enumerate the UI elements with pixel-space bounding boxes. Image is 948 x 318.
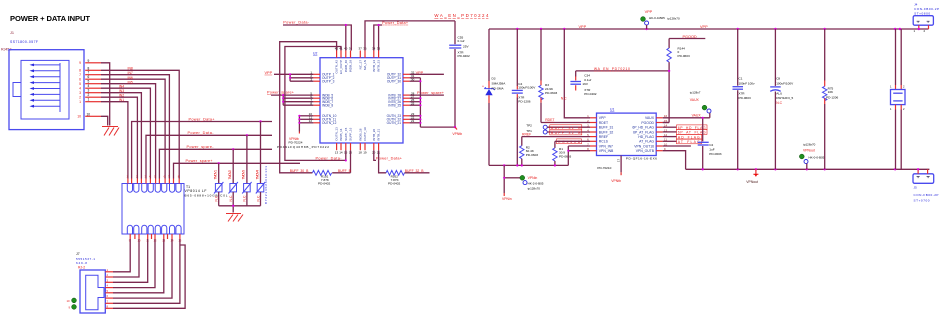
svg-text:CON-FB00-2P: CON-FB00-2P (914, 7, 939, 11)
wire J1 pin9 to ground (101, 63, 110, 126)
wire J7 pin3 to T1 (113, 239, 148, 282)
svg-text:U2: U2 (313, 52, 317, 56)
wire TMOV1 top (218, 163, 220, 183)
svg-text:1uF: 1uF (709, 147, 714, 151)
svg-text:13: 13 (335, 151, 339, 155)
transformer T1 bottom pin numbers (129, 239, 182, 243)
wire net Power_Data+ (line y121.5) (132, 122, 272, 179)
resistor R75 labels (826, 86, 838, 99)
diode D3 labels (492, 76, 507, 90)
junction C2 top (702, 117, 704, 119)
svg-text:PD-0402: PD-0402 (584, 92, 596, 96)
IC U2 bottom pin names (rotated) (335, 127, 381, 141)
wire TMOV3 top (246, 135, 248, 183)
svg-text:INTB_33: INTB_33 (377, 60, 381, 72)
wire RCLS to U1 pin6 (555, 141, 590, 148)
wire TMOV bottoms to rail (219, 192, 261, 213)
svg-text:10: 10 (77, 115, 81, 119)
svg-text:IN4: IN4 (119, 85, 124, 89)
svg-text:VAUX: VAUX (645, 116, 655, 120)
svg-text:PD-SMA: PD-SMA (492, 87, 505, 91)
test point TP2 (526, 124, 590, 130)
wire U2 pins 10-12 to VPNtb (299, 116, 313, 132)
junction J5 pin1 (917, 168, 919, 170)
svg-text:VPP: VPP (645, 10, 653, 14)
svg-text:INTB_21: INTB_21 (377, 129, 381, 141)
svg-text:2: 2 (79, 96, 81, 100)
svg-text:tp128x7: tp128x7 (690, 90, 701, 94)
svg-text:Power_spare-: Power_spare- (187, 145, 215, 149)
svg-text:649-8: 649-8 (76, 261, 87, 265)
resistor R3 labels (545, 83, 557, 95)
junction bottom data- (345, 159, 347, 161)
capacitor C1 labels (739, 77, 755, 100)
wire net IN5 (J1 pin5 to T1) (101, 84, 156, 179)
svg-text:AT_FLAG: AT_FLAG (678, 140, 700, 144)
IC U1 right pin stubs (656, 118, 663, 151)
wire J7 pin1 to T1 (113, 239, 130, 272)
IC U1 pin numbers left (587, 114, 589, 151)
svg-text:6: 6 (79, 78, 81, 82)
svg-text:Power_Data-: Power_Data- (283, 21, 310, 25)
svg-text:VPNtb: VPNtb (611, 179, 621, 183)
resistor R1 (30.9) (553, 148, 557, 161)
junction spare pins (282, 94, 284, 96)
capacitor C55 labels (458, 35, 470, 58)
test point VPNin (504, 165, 544, 196)
wire net IN6 (J1 pin6 to T1) (101, 79, 165, 178)
svg-text:PD-1206: PD-1206 (518, 99, 530, 103)
svg-text:N.C: N.C (561, 96, 567, 100)
svg-text:OUTP_19: OUTP_19 (363, 127, 367, 141)
svg-text:J1: J1 (10, 31, 14, 35)
svg-text:VPN_OUTB: VPN_OUTB (636, 149, 655, 153)
svg-text:OUTN_42: OUTN_42 (335, 60, 339, 74)
connector J7 body (80, 270, 105, 313)
svg-text:PD-0603: PD-0603 (526, 153, 538, 157)
resistor R3 (RDET 24.9K) (539, 29, 590, 123)
svg-text:OUTP_3: OUTP_3 (322, 79, 335, 83)
junction pin8 (567, 150, 569, 152)
varistor TMOV1 (214, 170, 224, 202)
junction J4 pin1 (918, 28, 920, 30)
svg-text:EX_OUTP: EX_OUTP (339, 60, 343, 74)
net label 4P_AT_FLAG (boxed) (663, 130, 707, 135)
test point TP VAUX (690, 90, 711, 117)
wire R2 bottom (521, 159, 523, 166)
wire VAUX (U1 pin16) (663, 117, 710, 119)
svg-text:37: 37 (359, 47, 363, 51)
varistor TMOV2 (228, 170, 238, 202)
svg-text:CON-FB00-2P: CON-FB00-2P (914, 193, 939, 197)
junction Power_spare+ / TMOV1 (218, 162, 220, 164)
wire U2 pin42 wraparound to BUFF resistor (280, 42, 337, 173)
svg-text:OUTN_12: OUTN_12 (322, 121, 337, 125)
svg-text:OUTN_13: OUTN_13 (335, 127, 339, 141)
svg-text:INDB_14: INDB_14 (339, 128, 343, 141)
wire R144 to U1 pin15 (663, 62, 669, 122)
svg-text:4: 4 (79, 87, 81, 91)
svg-text:VPNout: VPNout (746, 180, 758, 184)
wire net IN3 (J1 pin3 to T1) (101, 93, 141, 179)
svg-text:BUFF_31: BUFF_31 (599, 126, 614, 130)
wire net IN2 (J1 pin2 to T1) (101, 97, 137, 178)
svg-text:BUFF_32_B: BUFF_32_B (551, 131, 581, 135)
IC U1 left pin stubs (590, 118, 597, 151)
svg-text:INDB_40: INDB_40 (344, 60, 348, 73)
wire U2 pin41 wraparound to Power_Data- bottom (285, 47, 346, 161)
svg-text:VPNin: VPNin (528, 176, 538, 180)
wire WA_EN_PD70224 (U2 pin36 to C55) (365, 21, 455, 51)
svg-text:25V: 25V (463, 44, 469, 48)
wire Power_Data+ to U2 top pins (374, 25, 382, 51)
test point VPNout (on rail) (799, 143, 824, 170)
connector J7 pin stubs (105, 272, 113, 309)
svg-text:SS71800-057F: SS71800-057F (10, 40, 38, 44)
svg-text:C2: C2 (709, 143, 713, 147)
svg-text:VPN_INB: VPN_INB (599, 149, 614, 153)
svg-text:3: 3 (79, 91, 81, 95)
IC U1 left pin names (599, 116, 614, 153)
varistor TMOV4 (255, 170, 265, 202)
resistor R144 labels (678, 46, 690, 58)
svg-text:X7R: X7R (739, 92, 746, 96)
svg-text:MA_LN: MA_LN (363, 60, 367, 70)
svg-text:Power_spare+: Power_spare+ (267, 91, 295, 95)
svg-text:tp128x70: tp128x70 (803, 143, 816, 147)
svg-text:Power_Data-: Power_Data- (316, 156, 343, 160)
svg-text:B72214S2301K101: B72214S2301K101 (264, 166, 268, 204)
svg-text:VPNout: VPNout (803, 149, 815, 153)
wire U2 bottom pin to Power_Data- label (345, 150, 347, 160)
resistor R101 (312, 150, 350, 175)
svg-text:U1: U1 (610, 108, 614, 112)
wire U2 right pins collector to VPNtb (410, 78, 455, 127)
svg-text:POWER + DATA INPUT: POWER + DATA INPUT (10, 14, 90, 23)
svg-text:ST+0800: ST+0800 (914, 12, 930, 16)
svg-text:VPP: VPP (579, 25, 587, 29)
svg-text:N.C: N.C (776, 101, 782, 105)
svg-text:IN6: IN6 (128, 76, 133, 80)
resistor R75 (823, 29, 827, 169)
wire net Power_Data- (line y135.3) (146, 135, 272, 178)
IC U2 pin numbers left (309, 71, 313, 124)
svg-text:B65-0888+10GB-C0L: B65-0888+10GB-C0L (185, 193, 228, 197)
svg-text:SUPF_16: SUPF_16 (349, 127, 353, 140)
wire U1 pin10 VPN_OUT16 (663, 145, 691, 147)
svg-text:PD-0603: PD-0603 (559, 155, 571, 159)
IC U2 right pin names (387, 73, 402, 126)
svg-text:N.C: N.C (229, 195, 233, 202)
capacitor C4 (512, 29, 523, 165)
wire WA_EN_PD70210 (576, 70, 669, 72)
connector J7 pin numbers (107, 268, 109, 309)
svg-text:PD-0402: PD-0402 (388, 182, 400, 186)
svg-text:ALU: ALU (776, 92, 782, 96)
svg-text:BUFF_32: BUFF_32 (599, 130, 614, 134)
svg-text:VPN_IN7: VPN_IN7 (599, 144, 613, 148)
resistor R162 (379, 150, 430, 175)
svg-text:100uF/100V: 100uF/100V (776, 81, 794, 85)
svg-text:6P_HD_FLAG: 6P_HD_FLAG (678, 126, 706, 130)
IC U1 bottom pad pin 17 (617, 156, 622, 176)
svg-text:BUFF_32_B: BUFF_32_B (405, 169, 424, 173)
svg-text:PD-0402: PD-0402 (458, 54, 470, 58)
svg-text:VAUX: VAUX (692, 114, 702, 118)
wire net Power_spare+ (line y163.3) (174, 163, 301, 178)
svg-text:VAUX: VAUX (690, 98, 700, 102)
junctions on GND bus (503, 164, 556, 166)
resistor R2 labels (526, 145, 538, 157)
transformer T1 body (122, 184, 184, 235)
svg-text:tp128x70: tp128x70 (528, 186, 541, 190)
svg-text:10: 10 (67, 299, 71, 303)
connector J4 body (913, 16, 933, 33)
svg-text:PD-1206: PD-1206 (826, 96, 838, 100)
svg-text:NC_37: NC_37 (358, 60, 362, 70)
svg-text:TMOV1: TMOV1 (214, 170, 218, 180)
svg-text:IN8: IN8 (128, 67, 133, 71)
svg-text:VPN_OUT16: VPN_OUT16 (634, 144, 654, 148)
IC U2 pin numbers top (335, 47, 381, 51)
capacitor C4 labels (518, 82, 536, 103)
svg-text:5: 5 (79, 82, 81, 86)
jumper header F1 (890, 29, 905, 169)
svg-text:C1: C1 (739, 77, 743, 81)
power flag VPNout (746, 169, 758, 184)
IC U2 left pin names (322, 73, 337, 126)
wire J7 pin2 to T1 (113, 239, 139, 277)
wire U1 pin15 PGOOD (663, 122, 669, 124)
svg-text:J4: J4 (914, 2, 918, 6)
IC U2 pin numbers bottom (335, 151, 381, 155)
IC U2 pin numbers right (411, 71, 415, 124)
svg-text:RCLS: RCLS (599, 140, 609, 144)
wire VPN bottom rail (686, 168, 930, 170)
svg-text:PD-QF16-16-EX6: PD-QF16-16-EX6 (626, 157, 657, 161)
varistor TMOV3 (242, 170, 252, 202)
svg-text:TMOV2: TMOV2 (228, 170, 232, 180)
svg-text:RDET: RDET (545, 118, 554, 122)
junctions on VPN rail (702, 168, 897, 170)
junction Power_spare- / TMOV2 (232, 148, 234, 150)
svg-text:AT_FLAG: AT_FLAG (639, 140, 654, 144)
svg-text:RREF: RREF (599, 135, 608, 139)
wire net IN1 (J1 pin1 to T1) (101, 102, 128, 179)
resistor R2 (60.4K) (520, 146, 524, 159)
svg-text:ST+0700: ST+0700 (914, 198, 930, 202)
resistor R144 (667, 48, 671, 62)
junctions on VPP rail (516, 28, 901, 30)
svg-text:N.C: N.C (256, 195, 260, 202)
svg-text:INDB_18: INDB_18 (358, 128, 362, 141)
junction VPP pins (289, 73, 291, 75)
svg-text:HK-2-0-B05: HK-2-0-B05 (528, 182, 544, 186)
IC U2 body (320, 58, 403, 143)
svg-text:BUFF_30_B: BUFF_30_B (290, 169, 309, 173)
svg-text:C34: C34 (584, 73, 590, 77)
resistor R1 labels (559, 147, 571, 159)
IC U2 right pin stubs (403, 74, 410, 123)
svg-text:BUFF_31_B: BUFF_31_B (551, 126, 581, 130)
svg-text:+: + (482, 85, 484, 89)
test point TP1 (526, 129, 590, 134)
svg-text:TP2: TP2 (526, 124, 532, 128)
svg-text:IN5: IN5 (128, 81, 133, 85)
svg-text:PGOOD: PGOOD (641, 121, 654, 125)
svg-text:BUFF_B: BUFF_B (338, 169, 352, 173)
svg-text:Power_Data-: Power_Data- (188, 131, 215, 135)
resistor R101 labels (318, 175, 330, 186)
svg-text:PD-0603: PD-0603 (678, 54, 690, 58)
svg-text:PD-70224: PD-70224 (289, 141, 303, 145)
wire TMOV2 top (232, 149, 234, 183)
wire J7 pin8 to T1 (113, 245, 185, 308)
wire VPP top rail (489, 28, 929, 30)
svg-text:SMAJ58A: SMAJ58A (492, 82, 507, 86)
svg-text:N.C: N.C (243, 195, 247, 202)
IC U1 pin numbers right (664, 114, 668, 151)
junction VPNin spur (503, 177, 505, 179)
svg-text:17: 17 (617, 158, 621, 162)
junction Power_Data+ top (378, 24, 380, 26)
svg-text:DSH12F3_5: DSH12F3_5 (776, 96, 793, 100)
IC U1 body (597, 113, 657, 155)
svg-text:TMOV3: TMOV3 (242, 170, 246, 180)
wire Power_spare+ to U2 pins 5-8 (271, 95, 313, 105)
wire net IN7 (J1 pin7 to T1) (101, 75, 169, 179)
svg-text:VPP: VPP (599, 116, 607, 120)
net label BUFF_31_B (boxed) (550, 125, 582, 130)
capacitor C1 (733, 29, 744, 169)
wire U2 pin28 spare (410, 94, 444, 96)
svg-text:IN2: IN2 (119, 94, 124, 98)
junction TMOV bottom rail (232, 205, 234, 207)
wire GND bus (489, 164, 568, 166)
svg-text:tp128x70: tp128x70 (667, 17, 680, 21)
svg-text:10K: 10K (828, 90, 834, 94)
svg-text:IN1: IN1 (119, 98, 124, 102)
svg-text:14: 14 (339, 151, 343, 155)
svg-text:PD-0603: PD-0603 (545, 91, 557, 95)
svg-text:RDET: RDET (599, 121, 608, 125)
resistor R162 labels (388, 175, 400, 186)
pin nub VPNtb (298, 132, 300, 134)
svg-text:INTB_25: INTB_25 (388, 103, 401, 107)
svg-text:SUPF_15: SUPF_15 (344, 127, 348, 140)
IC U2 left pin stubs (313, 74, 320, 123)
svg-text:19: 19 (363, 151, 367, 155)
wire Power_Data- to U2 top pins (283, 25, 351, 51)
svg-text:Power_Data+: Power_Data+ (189, 117, 216, 121)
connector J7 green pins (72, 298, 77, 303)
svg-text:16V: 16V (582, 82, 588, 86)
connector J1 pin stubs (85, 63, 101, 117)
svg-text:Power_Data+: Power_Data+ (376, 156, 403, 160)
capacitor C34 (570, 71, 581, 91)
capacitor C2 labels (709, 143, 721, 156)
svg-text:PD-70210: PD-70210 (597, 166, 611, 170)
connector J5 body (913, 169, 934, 183)
net label RCL30B (boxed) (557, 139, 582, 144)
svg-text:PD-0603: PD-0603 (709, 152, 721, 156)
svg-text:7: 7 (79, 73, 81, 77)
svg-text:RJ-2: RJ-2 (78, 265, 85, 269)
svg-text:6P_HD_FLAG: 6P_HD_FLAG (632, 126, 654, 130)
capacitor C55 (449, 21, 461, 127)
capacitor C8 (electrolytic) (770, 29, 781, 169)
svg-text:1: 1 (79, 100, 81, 104)
net label BUFF_32_B (boxed) (550, 130, 582, 135)
transformer T1 top pin numbers (127, 175, 180, 179)
wire net Power_spare- (line y149.3) (159, 149, 272, 178)
svg-text:INDB_39: INDB_39 (349, 60, 353, 73)
svg-text:9: 9 (79, 61, 81, 65)
svg-text:WA_EN_PD70210: WA_EN_PD70210 (594, 67, 630, 71)
junction Power_Data- / TMOV3 (246, 134, 248, 136)
junction Power_Data+ / TMOV4 (259, 120, 261, 122)
ground under varistors (226, 214, 243, 222)
capacitor C34 labels (582, 73, 596, 96)
wire U1 pin9 VPN_OUTB to VPN rail (663, 151, 686, 170)
wire J1 pin10 to ground (101, 116, 108, 125)
svg-text:VPNtb: VPNtb (452, 132, 462, 136)
svg-text:100nF 100v: 100nF 100v (739, 81, 755, 85)
wire J7 pin7 to T1 (113, 239, 180, 303)
wire J7 pin6 to T1 (113, 239, 172, 298)
wire U2 pin32 VPP (410, 73, 444, 75)
svg-text:PD-0402: PD-0402 (318, 182, 330, 186)
wire J7 pin4 to T1 (113, 239, 155, 288)
svg-text:VPP: VPP (265, 71, 273, 75)
svg-text:IN3: IN3 (119, 89, 124, 93)
svg-text:J5: J5 (914, 186, 918, 190)
wire PGOOD top (669, 39, 705, 49)
transformer T1 top pin stubs (128, 179, 179, 184)
svg-text:HK-0-0-B05: HK-0-0-B05 (649, 16, 665, 20)
IC U2 bottom pin stubs (337, 143, 379, 150)
svg-text:INTB_20: INTB_20 (372, 129, 376, 141)
svg-text:PD-0603: PD-0603 (739, 96, 751, 100)
IC U2 top pin names (rotated) (335, 60, 381, 74)
svg-text:INDB_8: INDB_8 (322, 103, 333, 107)
svg-text:0.1uf: 0.1uf (458, 39, 465, 43)
junctions U2 right collector (419, 80, 456, 128)
net label 6P_HD_FLAG (boxed) (663, 125, 707, 130)
svg-text:VPNin: VPNin (502, 197, 512, 201)
junction WA_EN / R144 (668, 70, 670, 72)
svg-text:Power_spare+: Power_spare+ (186, 159, 214, 163)
svg-text:100uF/100V: 100uF/100V (518, 86, 536, 90)
svg-text:TMOV4: TMOV4 (255, 170, 259, 180)
diode D3 (zener SMAJ58A) (484, 29, 494, 165)
junction OUTN pins (298, 115, 300, 117)
svg-text:6P_AT_FLAG: 6P_AT_FLAG (678, 131, 706, 135)
svg-text:6P_AT_FLAG: 6P_AT_FLAG (633, 130, 654, 134)
svg-text:C8: C8 (776, 77, 780, 81)
svg-text:HK-0-0-B05: HK-0-0-B05 (809, 156, 825, 160)
wire J7 pin5 to T1 (113, 239, 164, 293)
net label AT_FLAG (boxed) (663, 139, 702, 144)
ground under J1 (102, 127, 119, 136)
wire VPP to U2 pins 1-3 (274, 74, 313, 81)
junction Power_Data- top (345, 24, 347, 26)
capacitor C2 (698, 118, 709, 170)
wire RREF to U1 pin5 (522, 137, 590, 146)
svg-text:HD_FLAG: HD_FLAG (678, 135, 700, 139)
wire net IN4 (J1 pin4 to T1) (101, 88, 150, 178)
wire R1 bottom (554, 161, 556, 166)
